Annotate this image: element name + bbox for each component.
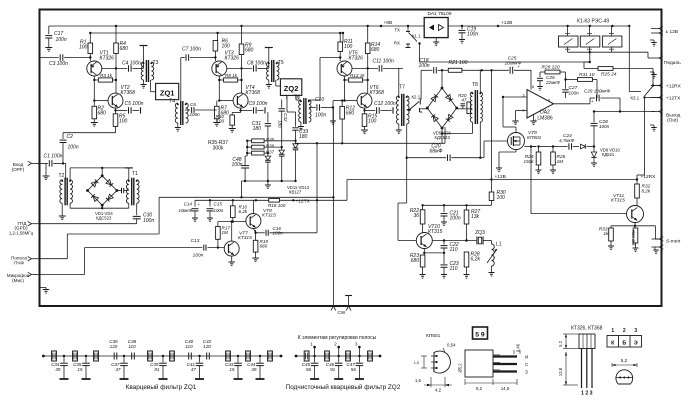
resistor R9 [239,44,244,55]
wire mixer bottom path [69,203,71,208]
wire K-line [342,142,445,144]
svg-text:5: 5 [548,99,550,103]
svg-text:DA1 78L09: DA1 78L09 [428,11,452,17]
dimension KT326 [565,334,567,349]
varicap VD11 [267,153,269,156]
resistor R12 [341,101,343,107]
svg-text:Т2: Т2 [59,173,65,179]
svg-text:180: 180 [299,134,308,140]
svg-text:680: 680 [120,46,129,52]
svg-text:14,5: 14,5 [501,386,510,391]
svg-text:110: 110 [185,344,193,349]
resistor R11 [338,42,343,52]
capacitor mixer left small [121,188,123,193]
svg-text:+12ТХ: +12ТХ [666,96,681,102]
svg-text:1k: 1k [603,231,609,237]
svg-text:180: 180 [253,126,262,132]
transistor VT11 [627,206,644,223]
terminal Polosa [28,257,32,261]
svg-text:300k: 300k [213,146,224,152]
wire VT10 base [406,124,408,203]
svg-text:S-metr: S-metr [666,239,681,245]
svg-text:+9В: +9В [384,20,393,26]
svg-text:100: 100 [216,119,224,124]
svg-text:0,54: 0,54 [447,343,456,348]
resistor R2 [93,101,95,107]
ground varicaps [267,181,269,185]
crystal ZQ1 element [52,351,57,361]
svg-text:ПЧФ: ПЧФ [14,261,24,266]
wire C10 to VT6 base [332,101,334,108]
transistor VT2 [108,93,123,108]
svg-text:100n: 100n [599,124,610,129]
svg-text:Т7: Т7 [399,85,405,91]
resistor R33 [610,226,612,228]
capacitor C8 [253,65,255,71]
svg-text:ТХ: ТХ [394,28,400,33]
wire tap 3 [358,347,360,356]
svg-text:680: 680 [346,111,355,117]
wire VT11 emitter [634,223,636,226]
svg-text:КТ326, КТ368: КТ326, КТ368 [571,326,603,332]
diode VD9 [581,144,586,149]
svg-text:C14: C14 [184,202,193,207]
svg-text:100n: 100n [569,91,580,96]
wire long vertical x317 [316,143,318,233]
svg-text:RX: RX [394,41,400,46]
wire CW vertical [332,108,334,307]
capacitor C4 [128,65,130,71]
transistor VT1 [87,61,102,76]
wire R21 node down to +12 rail [491,70,493,179]
wire VT8 emitter [253,229,255,233]
svg-text:R21 100: R21 100 [449,60,468,66]
wire to S-meter [654,226,656,239]
capacitor C2 [62,133,64,139]
svg-text:+12В: +12В [495,174,506,180]
svg-text:C4 100n: C4 100n [122,61,141,67]
varicap VD12 [281,147,283,150]
svg-text:5 9: 5 9 [475,332,485,339]
terminal aux with bar [348,296,350,307]
terminal GPD [28,222,32,226]
svg-text:13k: 13k [471,214,480,220]
capacitor C13 [159,247,202,249]
resistor R20 [467,102,471,114]
resistor R26 [539,146,554,148]
svg-text:R35: R35 [266,137,275,142]
svg-text:3: 3 [634,328,637,334]
svg-text:LM386: LM386 [537,116,553,122]
svg-text:Т6: Т6 [294,95,300,101]
wire stage1 bottom to C2 [63,132,116,134]
svg-text:+12ТХ: +12ТХ [296,198,311,204]
filter block ZQ1 [156,83,179,99]
resistor R21 [448,68,462,72]
drawing KP501 side view [465,350,493,377]
capacitor C23 [443,253,445,264]
wire DA2 pin3 input [503,96,527,98]
svg-text:КД521: КД521 [602,152,615,157]
terminal Vhod (OPF) [28,161,32,165]
svg-text:680: 680 [260,244,268,249]
wire ring bottom [441,128,443,143]
svg-text:К1-К3 РЭС-49: К1-К3 РЭС-49 [577,19,609,25]
package code 59 box [473,327,488,339]
capacitor C12 [364,108,366,110]
resistor R24 [537,145,539,147]
capacitor C11 [378,65,380,71]
svg-text:1,5: 1,5 [414,361,419,365]
svg-text:56: 56 [306,367,312,372]
quartz filter ZQ1 chain [43,355,281,357]
svg-text:КТ326: КТ326 [225,56,240,62]
capacitor C6 [185,109,190,111]
svg-text:680: 680 [98,111,107,117]
svg-text:680: 680 [411,258,420,264]
wire VT9 drain to DA2 [515,127,517,133]
resistor R30 [491,180,493,193]
wire R14 to VT6 [367,68,369,93]
switch K3.1 [652,84,654,86]
svg-text:+: + [198,202,201,207]
terminal Pedal [659,56,663,60]
svg-text:R13 1k: R13 1k [350,73,365,78]
board frame [40,10,662,307]
svg-text:T5: T5 [278,60,284,66]
svg-text:R31 10: R31 10 [579,72,595,78]
svg-text:39: 39 [55,367,61,372]
capacitor C22 [443,241,445,245]
svg-text:C5 100n: C5 100n [125,101,144,107]
wire VT1 base chain down [93,80,95,101]
resistor R14 [365,43,370,54]
capacitor C16 [256,232,265,234]
wire right vertical from rail [628,26,630,92]
crystal ZQ1 element [73,351,78,361]
svg-text:R29 220: R29 220 [542,65,560,71]
svg-text:110: 110 [450,266,458,272]
transformer T8 [470,92,472,122]
resistor R28 [464,252,469,267]
wire varicap bus left [247,140,251,142]
svg-text:КТ315: КТ315 [262,213,276,219]
svg-text:100: 100 [497,195,506,201]
svg-text:R3 1k: R3 1k [100,73,113,78]
svg-text:100n: 100n [190,112,201,117]
capacitor C3 [40,57,59,59]
svg-text:680: 680 [245,48,254,54]
regulator DA1 78L09 [424,18,448,38]
capacitor C41 [198,355,200,357]
svg-text:C1 100n: C1 100n [44,154,63,160]
svg-text:C8 100n: C8 100n [247,61,266,67]
svg-text:100n: 100n [68,145,79,151]
svg-text:КП501: КП501 [426,333,441,339]
ground near +-12V [650,39,654,41]
resistor R16 [232,200,234,206]
capacitor C46 [338,355,340,357]
svg-text:5,2: 5,2 [621,358,628,363]
wire AGC line [525,146,537,148]
svg-text:56: 56 [351,367,357,372]
transformer T4 [180,58,182,104]
capacitor C43 [237,355,239,357]
wire +12RX to mid rail [636,175,638,180]
svg-text:100n: 100n [143,218,154,224]
wire DA2 pin4 ground [533,115,535,121]
resistor R19 [253,240,258,252]
wire T8 secondary down [479,122,481,158]
wire +12V mid rail [347,179,637,181]
svg-text:36: 36 [413,213,419,219]
resistor R34 [634,226,636,228]
capacitor C33 [286,100,288,113]
capacitor C21 [443,205,445,212]
capacitor C20 [407,157,447,159]
wire +12RX out [653,85,662,87]
svg-text:100: 100 [79,45,88,51]
wire Polosa to varicaps [40,258,68,260]
resistor R18 [269,199,280,203]
transformer T3 [143,62,145,68]
svg-text:120: 120 [203,344,211,349]
subfilter ZQ2 chain [296,355,380,357]
svg-text:150k: 150k [524,159,535,164]
capacitor C7 [181,57,185,59]
svg-text:Педаль: Педаль [664,60,681,66]
svg-text:R8 1k: R8 1k [225,73,238,78]
svg-text:КДС523: КДС523 [435,135,451,140]
resistor R6 [213,41,218,52]
svg-text:C3 100n: C3 100n [49,61,68,67]
capacitor C10 [309,107,316,109]
svg-text:К3.1: К3.1 [631,96,640,101]
svg-text:47: 47 [461,98,467,103]
svg-text:C11 100n: C11 100n [373,59,395,65]
transistor VT5 [337,61,352,76]
svg-text:6,2k: 6,2k [239,209,248,214]
ground near input [45,163,47,175]
capacitor C48 [244,156,246,166]
svg-text:КТ368: КТ368 [246,90,261,96]
varicap VD13 [295,141,297,144]
wire C11 to T7 [398,68,400,95]
crystal ZQ1 element [246,351,251,361]
wire +9V/+12V top rail [49,25,424,27]
svg-text:R18 100: R18 100 [268,203,286,208]
svg-text:КТ315: КТ315 [428,229,443,235]
resistor R31 [566,79,578,81]
capacitor C29 [596,95,598,102]
wire DA2 pin6 [530,70,532,89]
wire T6 to stage3 input [308,99,320,101]
svg-text:R36: R36 [266,144,275,149]
svg-text:5,2: 5,2 [558,340,563,346]
svg-text:6: 6 [532,85,534,89]
svg-text:C2: C2 [67,134,74,140]
svg-text:(Мис): (Мис) [12,278,24,283]
wire VT10 collector to ZQ3 [432,240,476,242]
capacitor C15 [209,200,211,206]
resistor R27 [466,205,468,210]
wire tap 2 [338,347,340,356]
svg-text:1М: 1М [222,230,229,235]
capacitor C39 [162,355,164,357]
svg-text:T3: T3 [153,60,159,66]
wire DA2 output [554,103,591,105]
svg-text:100n: 100n [418,63,429,69]
svg-text:100n: 100n [231,162,242,168]
transformer T6 [295,95,297,100]
resistor R4 [114,43,119,54]
svg-text:И: И [525,355,528,360]
svg-text:100: 100 [368,119,377,125]
wire ring top to C18 line [441,70,443,88]
wire C18 drop to K2.1 [420,70,422,99]
capacitor C31 [267,112,269,123]
resistor R3 [93,76,95,80]
svg-text:100: 100 [222,44,231,50]
svg-text:L1: L1 [496,242,502,248]
capacitor C44 [259,355,261,357]
transistor VT4 [233,93,248,108]
leads KT326 [581,349,583,389]
svg-text:47: 47 [191,367,197,372]
filter block ZQ2 [280,79,301,96]
svg-text:КТ315: КТ315 [611,198,625,204]
svg-text:C9 100n: C9 100n [249,101,268,107]
wire R36 line [264,146,282,148]
wire VT5 collector [352,67,378,69]
capacitor C17 [48,26,50,34]
crystal ZQ1 element [170,351,175,361]
svg-text:Б: Б [622,341,626,347]
wire R17-R16-base [218,221,246,223]
resistor R1 [88,43,93,54]
svg-text:КТ326: КТ326 [349,56,364,62]
crystal ZQ1 element [268,351,273,361]
capacitor C34 [63,355,65,357]
wire VT3 collector [227,67,252,69]
relay K1 [559,36,579,47]
diode ring VD1-VD4 [88,176,117,205]
wire R4 to VT2 [115,68,117,93]
crystal ZQ3 [476,237,478,245]
dimension package bottom [464,379,466,385]
svg-text:КП501: КП501 [527,135,542,141]
svg-text:1 2 3: 1 2 3 [581,391,593,397]
svg-text:10мкФ: 10мкФ [179,208,193,213]
svg-text:1: 1 [286,96,288,100]
svg-text:КВ127: КВ127 [289,190,302,195]
resistor R23 [423,253,425,255]
svg-text:8,2k: 8,2k [642,189,651,194]
capacitor C25 [492,69,509,71]
svg-text:C6: C6 [190,102,196,107]
wire oscillator top [423,204,492,206]
crystal ZQ2 element [368,351,373,361]
resistor R25 [584,68,598,70]
wire tap 1 [314,347,316,356]
svg-text:100n: 100n [450,216,461,222]
capacitor C24 [553,146,568,148]
svg-text:К элементам регулировки полосы: К элементам регулировки полосы [298,335,377,341]
svg-text:4,7мкФ: 4,7мкФ [559,138,575,143]
switch K1.1 [407,26,409,32]
resistor R29 [540,71,545,73]
svg-text:15: 15 [229,367,235,372]
svg-text:ZQ2: ZQ2 [284,84,299,93]
capacitor C19 [461,26,463,29]
terminal Vyhod Out [659,109,663,113]
svg-text:Т1: Т1 [132,171,138,177]
crystal ZQ2 element [346,351,351,361]
svg-text:5,2: 5,2 [476,386,483,391]
svg-text:З: З [525,370,528,375]
transistor VT9 [508,133,525,150]
svg-text:180: 180 [278,120,283,128]
svg-text:C29 100мкФ: C29 100мкФ [584,89,611,94]
capacitor C40 [188,353,190,360]
wire varicap bottoms [267,165,269,181]
ground stub bottom left [40,287,47,289]
wire T8 primary bottom [471,122,473,134]
capacitor C14 [194,200,196,206]
svg-text:C13: C13 [191,238,200,244]
svg-text:68мФ: 68мФ [430,149,443,155]
transistor VT3 [212,61,227,76]
svg-text:100n: 100n [315,113,326,119]
svg-text:100n: 100n [56,37,67,43]
resistor R10 [240,110,242,112]
inductor L1 [484,240,492,242]
wire VT1 collector [102,67,127,69]
ground near out [650,124,654,126]
svg-text:100n: 100n [214,208,224,213]
svg-text:КТ368: КТ368 [370,90,385,96]
svg-text:100n: 100n [467,32,478,38]
capacitor C45 [313,355,315,357]
wire +12TX out [645,97,662,99]
svg-text:6,2k: 6,2k [471,257,481,263]
svg-text:22мкФ: 22мкФ [545,80,560,85]
svg-text:К1.1: К1.1 [412,34,421,39]
svg-text:± 12В: ± 12В [666,29,679,35]
resistor R32 [636,178,638,184]
crystal ZQ1 element [94,351,99,361]
svg-text:47: 47 [115,367,121,372]
wire VT10 emitter [423,249,425,253]
svg-text:+12RX: +12RX [666,84,682,90]
crystal ZQ1 element [148,351,153,361]
capacitor C9 [240,108,242,110]
wire R35 line [264,140,295,142]
crystal ZQ1 element [226,351,231,361]
wire mixer top path [69,168,71,180]
capacitor C47 [358,355,360,357]
terminal Mikrofon [28,272,32,276]
svg-text:Кварцевый фильтр ZQ1: Кварцевый фильтр ZQ1 [126,383,197,391]
resistor R7 [216,101,218,107]
capacitor C42 [206,353,208,360]
wire R9 to VT4 [241,68,243,93]
transformer T1 [126,180,128,204]
capacitor C18 [421,69,432,71]
wire C20 to VT9 gate [480,157,484,159]
wire VT11 base from AGC [531,146,537,148]
wire VT3 base chain down [218,80,220,101]
